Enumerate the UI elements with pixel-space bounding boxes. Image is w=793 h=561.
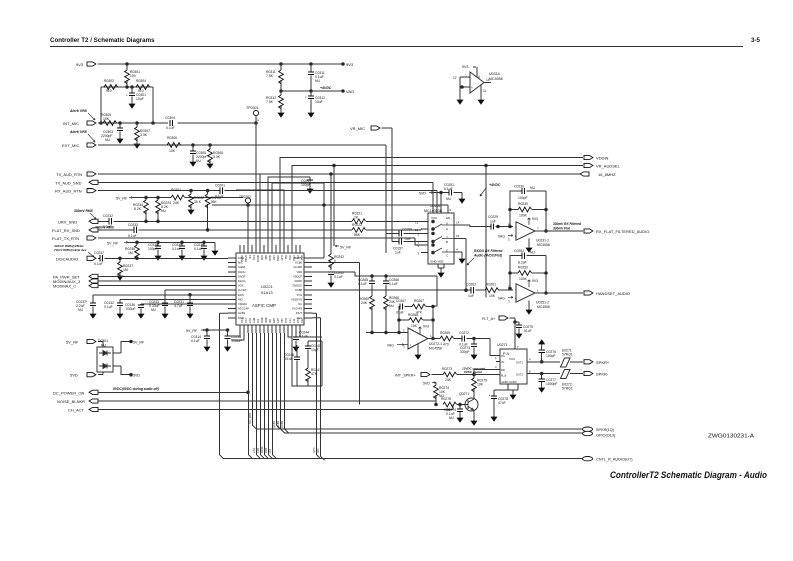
wire U0272-1 output [428,338,440,340]
wire 5V_RF into D0301 [98,342,103,348]
resistor R0304 [136,85,150,90]
svg-text:C0233: C0233 [128,223,138,227]
resistor R0232 [190,191,192,207]
svg-text:D0301: D0301 [98,339,108,343]
svg-text:-: - [515,288,516,292]
capacitor C0237A [92,295,94,311]
capacitor C0242 [328,272,334,274]
svg-text:TX_AUD_RTN: TX_AUD_RTN [56,172,82,177]
wire TX_AUD_SND [98,182,433,213]
wire Q0271 emitter [473,410,475,418]
svg-text:5VD: 5VD [133,374,140,378]
wire 5V_RF row1 [133,197,243,199]
capacitor C0236 [203,242,205,253]
op-amp U0272-1 [408,328,428,349]
svg-text:CSX: CSX [252,447,256,453]
resistor R0273 [443,372,457,377]
svg-text:9V3: 9V3 [462,65,468,69]
svg-text:51A13: 51A13 [261,290,273,295]
IC U0221 ASFIC body [236,253,304,325]
svg-text:DISCAUDIO: DISCAUDIO [56,256,78,261]
svg-text:MC4558: MC4558 [537,305,550,309]
svg-text:10pF: 10pF [311,348,319,352]
svg-text:TX_AUD_SND: TX_AUD_SND [55,180,82,185]
ground below C0305 [190,159,196,166]
svg-text:7.5K: 7.5K [266,74,274,78]
svg-text:1: 1 [257,118,259,122]
ground below Q0271 [471,418,477,425]
svg-text:BW0: BW0 [264,318,267,324]
svg-text:VDDSYN: VDDSYN [291,297,302,301]
svg-text:DAT: DAT [248,318,251,323]
ground below C0235 [179,253,185,260]
svg-text:U0251-2: U0251-2 [536,301,549,305]
svg-text:16M: 16M [260,255,263,260]
ground below PA [508,384,518,392]
svg-text:DACG: DACG [238,279,246,283]
capacitor C0136 [140,304,142,311]
capacitor C0156 [386,233,399,235]
svg-text:.033uF: .033uF [125,307,136,311]
wire sub-box filter [292,333,322,386]
PA pin names [501,354,523,378]
svg-text:TXI: TXI [248,255,251,259]
svg-text:MC4558: MC4558 [489,77,503,81]
svg-text:M_B: M_B [501,374,507,378]
svg-text:Q0271: Q0271 [459,392,469,396]
capacitor C0275 [515,322,519,331]
svg-text:VAG: VAG [498,297,505,301]
svg-text:NU: NU [530,186,535,190]
svg-text:13: 13 [415,228,419,232]
wire drop rail a [330,174,332,252]
resistor R0312 [280,91,282,110]
header rule [50,46,743,48]
capacitor C0251 [449,189,451,195]
svg-text:5V_RF: 5V_RF [107,241,119,245]
svg-text:0.1uF: 0.1uF [94,262,103,266]
ground right of C0251 [459,196,465,203]
svg-text:16_8MHZ: 16_8MHZ [598,172,616,177]
svg-text:14: 14 [456,221,460,225]
wire bottom bus CNTL line [223,458,582,460]
svg-text:15: 15 [456,234,460,238]
resistor R0233 [207,191,209,230]
svg-text:Controller T2 / Schematic Diag: Controller T2 / Schematic Diagrams [50,37,155,44]
resistor R0241 [306,368,311,382]
svg-text:C0261: C0261 [466,283,476,287]
svg-text:0.1uF: 0.1uF [194,247,203,251]
svg-text:MODMAX_C: MODMAX_C [53,284,76,289]
svg-text:14: 14 [486,78,490,82]
diode D0301a [99,351,111,356]
svg-text:SPI: SPI [268,319,271,323]
svg-text:R0252: R0252 [518,266,528,270]
svg-text:TXQ: TXQ [252,255,255,260]
capacitor C0235 [181,242,183,253]
svg-text:VR_AUDSEL: VR_AUDSEL [596,164,621,169]
svg-text:U0221: U0221 [261,284,274,289]
resistor R0234 [145,198,147,222]
wire 5VD to VCC [433,193,449,214]
wire Q0271 collector with R0275 [474,370,500,400]
capacitor C0301 [131,87,133,101]
svg-text:NU: NU [315,79,320,83]
wire 5V_RF row2 [128,242,215,248]
svg-text:4: 4 [478,75,480,79]
svg-text:VSS: VSS [300,318,303,323]
svg-text:VDD: VDD [297,270,303,274]
IC U0221 right pin names [291,256,302,320]
wire FLAT_RX_SND to switch pin13 [98,228,421,231]
svg-text:ControllerT2 Schematic Diagram: ControllerT2 Schematic Diagram - Audio [610,470,768,480]
svg-text:SEL: SEL [284,255,287,260]
svg-text:5V_RF: 5V_RF [66,340,79,345]
svg-text:SYN: SYN [297,293,302,297]
resistor R0237 [119,258,121,273]
svg-text:MICIN: MICIN [256,255,259,262]
wire INT_SPKR+ [432,374,501,376]
svg-text:9V3: 9V3 [532,217,538,221]
svg-text:GCB2: GCB2 [276,420,280,428]
pin 12 input [460,76,470,78]
wire IC pin BW0 to bus [265,333,269,459]
wire IC pin CLK corner [231,333,244,340]
connector VDDIN [584,155,593,159]
resistor R0302 [104,85,118,90]
svg-text:R0222: R0222 [352,223,362,227]
ground below C0242 [328,280,334,287]
svg-text:Audio (9VDC/Flat): Audio (9VDC/Flat) [473,254,502,258]
wire MODMAX to IC [98,285,228,287]
svg-text:OUT1: OUT1 [516,361,523,365]
svg-text:AUD: AUD [280,255,283,260]
svg-text:9V3: 9V3 [423,325,429,329]
svg-text:AUX: AUX [284,318,287,323]
svg-text:IN-: IN- [501,360,505,364]
svg-text:CLHSB: CLHSB [293,265,302,269]
svg-text:CNTL_R_AUDIO(G7): CNTL_R_AUDIO(G7) [596,458,633,462]
wire IC pin CSX corner [230,333,240,336]
svg-text:R0273: R0273 [442,367,452,371]
svg-text:SPKR+: SPKR+ [596,360,610,365]
ground arrow up above C0276 [539,340,545,347]
svg-text:0.1uF: 0.1uF [166,126,175,130]
wire EN control [212,205,448,213]
svg-text:GND1 GND2: GND1 GND2 [502,380,518,384]
ground below C0237A [90,311,96,318]
resistor R0301 [126,64,128,87]
wire 16_8MHZ net [260,174,582,253]
wire IC right GCB0 to mute rail [312,263,360,405]
svg-text:SPKR(1Q): SPKR(1Q) [596,428,615,432]
capacitor C0234 [157,242,159,253]
svg-text:.1uF: .1uF [404,237,411,241]
svg-text:INT: INT [268,448,272,453]
svg-text:0.1uF: 0.1uF [104,305,113,309]
svg-text:+: + [515,297,517,301]
wire RX_AUD_RTN [98,191,437,213]
svg-text:RR: RR [501,368,505,372]
ground below R0232 [188,207,194,214]
svg-text:INT: INT [256,319,259,324]
svg-text:0: 0 [334,259,336,263]
svg-text:SYN: SYN [312,448,316,453]
wire IC pin SEL to bus [281,333,285,433]
svg-text:VAG: VAG [498,235,505,239]
switch section X [432,220,435,223]
svg-text:.1uF: .1uF [394,251,401,255]
op-amp U0251-2 [516,284,535,302]
svg-text:SCI: SCI [316,448,320,453]
wire IC pin INT to bus [257,333,261,459]
svg-text:1M: 1M [123,268,128,272]
wire pair to bottom bus b [312,318,325,460]
svg-text:RX_FLAT_FILTERED_AUDIO: RX_FLAT_FILTERED_AUDIO [596,229,649,234]
wire drop rail b [333,166,335,247]
svg-text:IN+: IN+ [501,354,506,358]
svg-text:+4VDC: +4VDC [320,86,332,90]
svg-text:SHDA: SHDA [238,265,245,269]
svg-text:X: X [446,222,448,226]
capacitor C0233 [134,227,136,233]
wire 5VD into D0301 [98,372,103,375]
wire cap feed row c [120,298,228,300]
wire VAG reference drop [485,166,487,298]
svg-text:OSC: OSC [288,255,291,261]
svg-text:100K: 100K [519,214,528,218]
svg-text:VAG: VAG [346,89,354,94]
svg-text:Alert/ VR8: Alert/ VR8 [69,130,87,134]
svg-text:TP0301: TP0301 [246,106,259,110]
svg-text:DATA: DATA [260,446,264,453]
wire IC pin RDY to bus [253,333,257,429]
svg-text:-: - [410,332,411,336]
feedback R0267 [412,304,426,309]
wire IC pin AUX to bus [285,333,289,433]
wire switch X out to C0229 [454,225,491,227]
ground below C0233B [162,311,168,318]
wire DC_POWER_ON [98,391,248,393]
svg-text:B: B [446,240,448,244]
resistor R0305 [103,121,117,126]
capacitor C0273 [473,339,475,353]
svg-text:Alert/ VR8: Alert/ VR8 [69,109,87,113]
wire IC pin VSS to filter [300,333,322,337]
svg-text:24K: 24K [445,378,452,382]
resistor R0222 [352,228,366,233]
svg-text:VDDA: VDDA [240,255,243,262]
ground below C0234 [155,253,161,260]
svg-text:DACR: DACR [238,274,245,278]
svg-text:NU: NU [530,251,535,255]
pin 11 to ground [480,85,482,97]
svg-text:R0268: R0268 [408,313,418,317]
wire EXT_MIC line [98,145,386,253]
svg-text:EN: EN [446,216,450,220]
svg-text:CH_ACT: CH_ACT [68,408,85,413]
capacitor C0233B [164,290,166,311]
feedback C0267 [399,307,433,339]
wire C0251 to ground [453,193,462,197]
IC U0221 bottom pin stubs [240,325,300,333]
wire cap feed row d [141,303,228,305]
svg-text:U0272-1: U0272-1 [429,342,442,346]
svg-text:3.3K: 3.3K [213,155,221,159]
svg-text:100K: 100K [519,277,528,281]
svg-text:10K: 10K [489,294,496,298]
wire DISCAUDIO to IC [98,257,228,259]
wire INT_MIC line [98,122,256,124]
IC U0221 top pin stubs [240,245,300,253]
svg-text:-: - [515,226,516,230]
svg-text:VDDI: VDDI [276,255,279,261]
svg-text:FGB8: FGB8 [295,288,302,292]
svg-text:1uF: 1uF [490,220,496,224]
ground below C0243 [307,186,313,193]
feedback C0230 [510,191,546,231]
wire mute base rail [457,404,461,406]
ground below C0278 [491,414,497,421]
capacitor C0238 [227,330,229,344]
svg-text:10K: 10K [103,117,110,121]
resistor R0269 [440,336,454,341]
capacitor C0304 [170,120,172,126]
svg-text:DC_POWER_ON: DC_POWER_ON [53,390,84,395]
svg-text:NU: NU [78,308,83,312]
svg-text:1uF: 1uF [468,294,474,298]
svg-text:RDY: RDY [264,447,268,453]
svg-text:GCB3: GCB3 [280,420,284,428]
svg-text:C0272: C0272 [459,331,469,335]
ground below U0272-1 [417,344,419,352]
svg-text:RX/DX RX Filtered: RX/DX RX Filtered [474,249,503,253]
capacitor C0311 [310,64,312,91]
svg-text:VDDIN: VDDIN [596,156,609,161]
wire 5VD out of D0301 [113,366,131,375]
svg-text:NOISE_BLNKR: NOISE_BLNKR [57,399,85,404]
ground below C0303 [117,136,123,143]
resistor R0311 [280,64,282,91]
capacitor C0246 [296,345,298,386]
PA stub in- [496,361,500,363]
svg-text:GP2: GP2 [272,318,275,324]
svg-text:C0237: C0237 [94,251,104,255]
resistor R0308 [209,145,211,161]
svg-text:VCC: VCC [431,216,438,220]
wire IC pin SPI to bus [269,333,273,459]
svg-text:NU: NU [101,344,106,348]
svg-text:300mV RMS: 300mV RMS [74,209,94,213]
wire TP0301 vertical [255,116,257,253]
connector 16_8MHZ [580,172,589,176]
wire IC right BWTN to bus [312,232,324,258]
svg-text:1000pF: 1000pF [546,382,558,386]
op-amp U0231-2 [516,222,535,240]
svg-text:5V_RF: 5V_RF [186,329,198,333]
wire IC pin TST to filter [288,333,292,337]
op-amp output pin 14 [484,82,491,84]
svg-text:910: 910 [106,89,112,93]
ground below U0251-2 [528,301,530,308]
svg-text:C0232: C0232 [103,214,113,218]
ground below R0237 [117,273,123,280]
svg-text:C0201: C0201 [215,184,225,188]
wire FLT_A+ to PA VCC [510,318,516,349]
svg-text:Z: Z [446,249,448,253]
resistor R0274 [435,383,437,405]
wire bottom bus SPKR line [256,428,582,430]
ground at row2 end [212,248,218,255]
svg-text:MC14053B: MC14053B [424,209,443,213]
svg-text:2K: 2K [354,216,359,220]
svg-text:10K: 10K [169,149,176,153]
supply 9V3 at U0231-2 [528,218,531,225]
capacitor C0314 [206,330,208,344]
svg-text:FLAT_TX_RTN: FLAT_TX_RTN [52,236,79,241]
svg-text:+: + [471,86,473,90]
svg-text:BW1: BW1 [260,318,263,324]
resistor R0307 [136,123,138,141]
svg-text:IOUT: IOUT [296,311,303,315]
wire cap feed row b [93,294,228,296]
supply 9V3 at U0251-2 [528,280,531,287]
svg-text:10uF: 10uF [315,100,323,104]
svg-text:5V_RF: 5V_RF [116,197,128,201]
resistor R0306 [167,143,181,148]
ground below C0132 [117,311,123,318]
svg-text:8.2pF: 8.2pF [518,261,527,265]
ground below C0231 [187,311,193,318]
resistor R0221 [352,219,366,224]
svg-text:NC: NC [298,302,302,306]
wire U0251-2 output [535,292,583,294]
svg-text:R0261: R0261 [486,283,496,287]
svg-text:C0252: C0252 [514,249,524,253]
svg-text:R0306: R0306 [167,136,177,140]
svg-text:ASFIC CMP: ASFIC CMP [252,303,276,308]
svg-text:10K: 10K [411,324,418,328]
svg-text:VOX: VOX [238,284,244,288]
svg-text:R0267: R0267 [414,299,424,303]
switch left pin stubs [421,222,428,253]
capacitor C0132 [119,299,121,311]
ground below C0277 [539,385,545,392]
wire decoupling row [205,329,228,331]
svg-text:CEX: CEX [296,318,299,323]
wire VR_MIC [382,128,393,242]
svg-text:Y: Y [446,235,448,239]
svg-text:REF: REF [264,255,267,260]
wire 9V3 rail [98,63,343,65]
svg-text:GCB0: GCB0 [295,261,303,265]
ground below C0136 [138,311,144,318]
capacitor C0232 [109,218,111,224]
svg-text:5VDC(9VDC during audio off): 5VDC(9VDC during audio off) [113,387,159,391]
svg-text:9V3: 9V3 [346,62,354,67]
wire switch Z out to ground [454,252,462,256]
svg-text:9V3: 9V3 [532,279,538,283]
svg-text:+: + [515,235,517,239]
svg-text:0.1uF: 0.1uF [128,234,137,238]
svg-text:VDDCF: VDDCF [293,274,302,278]
svg-text:DACU: DACU [238,270,245,274]
feedback R0268 [399,319,433,321]
svg-text:EGN: EGN [238,293,244,297]
svg-text:EXT_MIC: EXT_MIC [62,143,79,148]
svg-text:5V_RF: 5V_RF [340,246,352,250]
svg-text:70mV RMS@1kHz dev: 70mV RMS@1kHz dev [54,248,87,252]
